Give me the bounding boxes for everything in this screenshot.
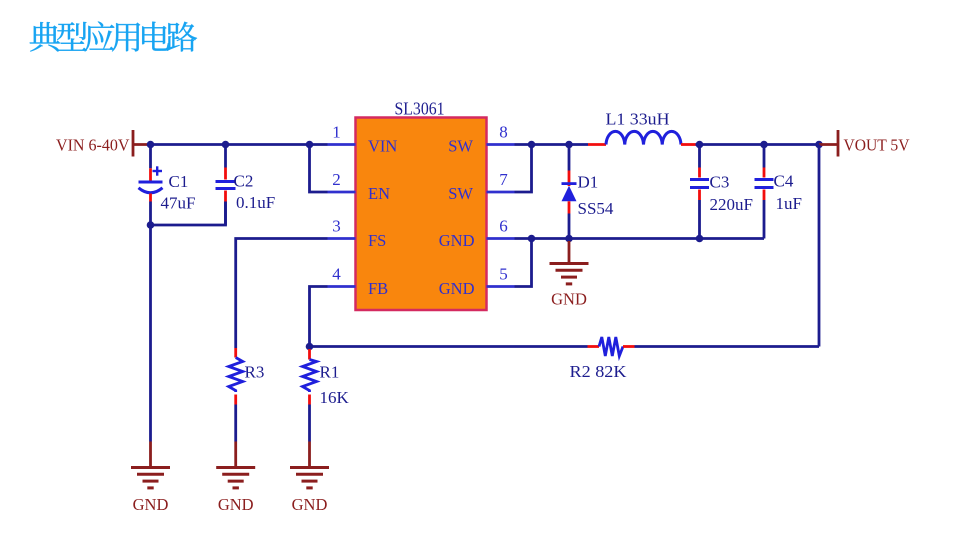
svg-text:GND: GND: [439, 231, 475, 250]
node junction SW/pin7: [528, 141, 536, 149]
wire R3 to ground: [234, 405, 237, 442]
svg-text:GND: GND: [551, 290, 587, 309]
net VIN terminal: [132, 130, 135, 157]
wire VIN rail: [151, 143, 328, 146]
ground GND (C1): [149, 442, 152, 468]
svg-text:VOUT 5V: VOUT 5V: [844, 136, 911, 155]
wire pin 7 to SW node: [515, 145, 532, 193]
node junction SW/D1: [565, 141, 573, 149]
pin 4 stub: [328, 285, 356, 288]
svg-text:SW: SW: [448, 184, 473, 203]
svg-text:6: 6: [499, 217, 508, 236]
pin 7 stub: [487, 191, 515, 194]
svg-text:1: 1: [332, 123, 341, 142]
svg-text:GND: GND: [292, 495, 328, 514]
svg-text:0.1uF: 0.1uF: [236, 193, 275, 212]
inductor L1 33uH: [588, 143, 606, 146]
svg-text:GND: GND: [439, 279, 475, 298]
ground GND (R3): [234, 442, 237, 468]
resistor R1 16K: [308, 349, 311, 360]
wire VOUT to R2: [818, 145, 821, 347]
svg-text:3: 3: [332, 217, 341, 236]
wire FB branch: [310, 287, 328, 347]
node junction VOUT: [815, 141, 823, 149]
svg-text:SS54: SS54: [578, 199, 614, 218]
op IC U1 SL3061 body: [356, 118, 487, 311]
svg-text:VIN: VIN: [368, 137, 397, 156]
pin 2 stub: [328, 191, 356, 194]
svg-text:SL3061: SL3061: [395, 99, 445, 119]
wire R2 to VOUT: [635, 345, 820, 348]
capacitor C4 1uF: [763, 145, 766, 168]
svg-text:EN: EN: [368, 184, 390, 203]
svg-text:GND: GND: [133, 495, 169, 514]
node junction C4: [760, 141, 768, 149]
ground GND (R1): [308, 442, 311, 468]
title 典型应用电路: [30, 21, 197, 51]
svg-text:L1 33uH: L1 33uH: [606, 110, 670, 129]
svg-text:R1: R1: [320, 363, 340, 382]
svg-text:VIN 6-40V: VIN 6-40V: [56, 136, 130, 155]
svg-text:FB: FB: [368, 279, 388, 298]
capacitor C3 220uF: [698, 145, 701, 168]
svg-text:16K: 16K: [320, 388, 350, 407]
wire FS to R3: [236, 239, 328, 349]
svg-text:1uF: 1uF: [776, 194, 802, 213]
ground GND (D1): [568, 241, 571, 264]
wire VOUT rail: [696, 143, 820, 146]
svg-text:C2: C2: [234, 172, 254, 191]
node junction VIN/C2: [222, 141, 230, 149]
capacitor C2 0.1uF: [224, 145, 227, 168]
node junction C1 bottom: [147, 221, 155, 229]
svg-text:4: 4: [332, 265, 341, 284]
wire C1 to ground: [149, 225, 152, 442]
svg-text:7: 7: [499, 170, 508, 189]
node junction VIN/C1: [147, 141, 155, 149]
wire R1 to ground: [308, 405, 311, 442]
pin 1 stub: [328, 143, 356, 146]
svg-text:C1: C1: [169, 172, 189, 191]
wire SW node (pin 8): [515, 143, 589, 146]
node junction GND/pin5: [528, 235, 536, 243]
node junction GND/C3: [696, 235, 704, 243]
pin 8 stub: [487, 143, 515, 146]
wire C1-C2 bottom rail: [151, 202, 226, 226]
svg-text:47uF: 47uF: [161, 194, 196, 213]
capacitor C1 47uF: [149, 145, 152, 169]
svg-text:R3: R3: [245, 363, 265, 382]
svg-text:2: 2: [332, 170, 341, 189]
node junction VIN/EN: [306, 141, 314, 149]
node junction L1/C3: [696, 141, 704, 149]
svg-text:8: 8: [499, 123, 508, 142]
pin 5 stub: [487, 285, 515, 288]
svg-text:FS: FS: [368, 231, 386, 250]
diode D1 SS54: [568, 145, 571, 171]
resistor R2 82K: [588, 345, 600, 348]
svg-text:SW: SW: [448, 137, 473, 156]
svg-text:R2 82K: R2 82K: [570, 362, 628, 381]
wire pin 5 to GND rail: [515, 239, 532, 287]
svg-text:C3: C3: [710, 173, 730, 192]
svg-text:5: 5: [499, 265, 508, 284]
wire EN branch: [310, 145, 328, 193]
pin 6 stub: [487, 237, 515, 240]
node junction GND/D1: [565, 235, 573, 243]
pin 3 stub: [328, 237, 356, 240]
wire GND rail (pin 6): [515, 237, 765, 240]
net VOUT terminal: [819, 143, 837, 146]
svg-text:D1: D1: [578, 173, 599, 192]
svg-text:220uF: 220uF: [710, 195, 753, 214]
svg-text:GND: GND: [218, 495, 254, 514]
resistor R3: [234, 348, 237, 358]
svg-text:C4: C4: [774, 172, 794, 191]
node junction FB/R1/R2: [306, 343, 314, 351]
wire FB to R2: [310, 345, 588, 348]
